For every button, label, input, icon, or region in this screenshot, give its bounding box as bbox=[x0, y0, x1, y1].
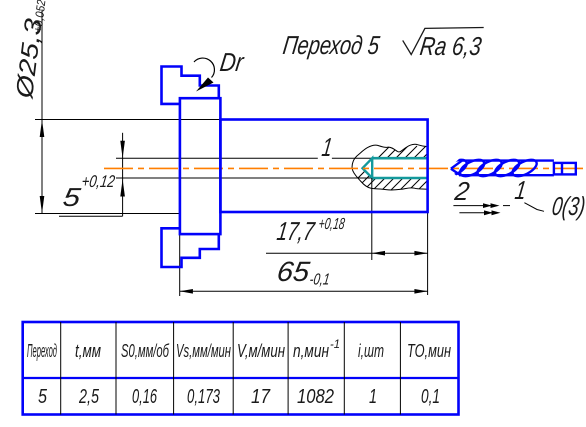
svg-text:Переход: Переход bbox=[27, 341, 57, 361]
svg-text:Vs,мм/мин: Vs,мм/мин bbox=[176, 341, 231, 361]
rotated dimension text Ø25,3 +0,052 bbox=[11, 0, 49, 101]
pilot hole lines Ø5 bbox=[116, 158, 372, 178]
svg-text:TO,мин: TO,мин bbox=[407, 341, 451, 361]
extension line left face bbox=[179, 215, 181, 296]
extension line right face bbox=[427, 212, 429, 295]
svg-text:0,173: 0,173 bbox=[187, 386, 220, 408]
drill bit bbox=[440, 156, 576, 179]
movement arrow upper bbox=[453, 203, 510, 208]
chuck jaw top bbox=[162, 67, 219, 104]
roughness symbol Ra 6,3 bbox=[403, 28, 484, 61]
svg-text:1: 1 bbox=[369, 386, 377, 408]
svg-text:Ra 6,3: Ra 6,3 bbox=[418, 31, 484, 61]
svg-text:n,мин: n,мин bbox=[293, 341, 329, 361]
svg-text:i,шт: i,шт bbox=[358, 341, 384, 361]
chuck jaw bottom bbox=[162, 228, 219, 267]
table header row bbox=[27, 337, 451, 361]
dimension 5+0,12 bbox=[59, 133, 125, 216]
section blob with hatching bbox=[340, 144, 471, 196]
svg-text:+0,18: +0,18 bbox=[317, 215, 346, 233]
svg-text:17,7: 17,7 bbox=[275, 216, 317, 246]
svg-text:1: 1 bbox=[320, 132, 334, 162]
svg-text:Переход 5: Переход 5 bbox=[281, 30, 382, 60]
svg-text:17: 17 bbox=[251, 386, 271, 408]
rotation label Dг with arrow bbox=[194, 47, 246, 91]
svg-text:V,м/мин: V,м/мин bbox=[237, 341, 285, 361]
svg-text:S0,мм/об: S0,мм/об bbox=[121, 341, 170, 361]
svg-text:2,5: 2,5 bbox=[78, 386, 99, 408]
workpiece clamped section bbox=[180, 98, 221, 234]
movement arrow lower bbox=[459, 210, 500, 215]
svg-text:Dr: Dr bbox=[218, 47, 246, 77]
svg-text:5: 5 bbox=[38, 386, 48, 408]
svg-text:2: 2 bbox=[452, 176, 472, 206]
svg-text:+0,12: +0,12 bbox=[80, 172, 116, 191]
centerline bbox=[104, 167, 586, 169]
svg-text:65: 65 bbox=[275, 256, 312, 287]
parameter table bbox=[23, 322, 459, 415]
svg-text:0,1: 0,1 bbox=[421, 386, 440, 408]
workpiece main body bbox=[220, 120, 427, 213]
dimension 17,7+0,18 bbox=[266, 215, 428, 255]
leader under 1 bbox=[524, 203, 544, 212]
dimension Ø25,3 line and arrows bbox=[35, 10, 220, 214]
extension line hole depth bbox=[371, 178, 373, 260]
svg-text:0(3): 0(3) bbox=[550, 191, 586, 221]
svg-text:5: 5 bbox=[61, 182, 83, 212]
svg-text:1: 1 bbox=[513, 175, 528, 205]
svg-text:t,мм: t,мм bbox=[75, 341, 101, 361]
svg-text:0,16: 0,16 bbox=[132, 386, 158, 408]
svg-text:-0,1: -0,1 bbox=[308, 271, 331, 289]
dimension 65-0,1 bbox=[180, 256, 428, 293]
svg-text:-1: -1 bbox=[330, 337, 340, 351]
table data row bbox=[38, 386, 440, 408]
drill in hole (teal) bbox=[363, 158, 428, 178]
svg-text:1082: 1082 bbox=[297, 386, 334, 408]
